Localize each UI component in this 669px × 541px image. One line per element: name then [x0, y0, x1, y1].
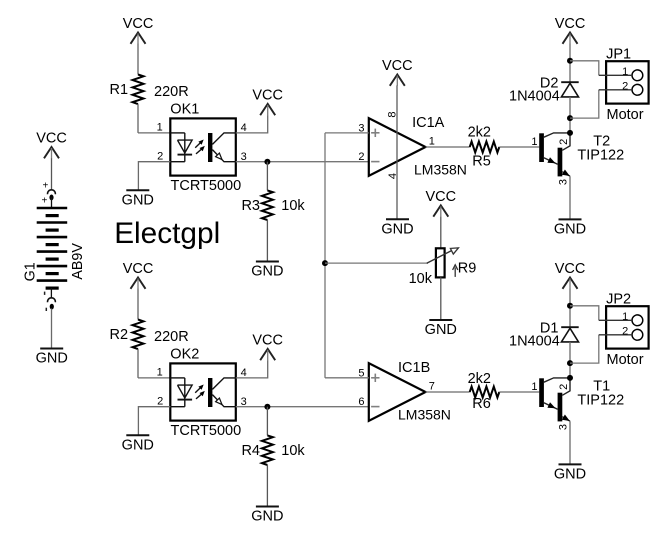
svg-text:8: 8	[386, 112, 398, 118]
svg-text:OK1: OK1	[170, 102, 199, 118]
svg-text:3: 3	[558, 424, 570, 430]
svg-text:JP1: JP1	[606, 46, 631, 62]
svg-text:10k: 10k	[409, 271, 433, 287]
svg-text:VCC: VCC	[123, 261, 154, 277]
svg-text:TCRT5000: TCRT5000	[171, 423, 242, 439]
svg-text:G1: G1	[22, 262, 38, 281]
svg-text:GND: GND	[425, 322, 457, 338]
svg-text:Motor: Motor	[607, 352, 644, 368]
svg-text:220R: 220R	[154, 84, 189, 100]
svg-text:R3: R3	[241, 198, 260, 214]
svg-text:2: 2	[358, 151, 364, 163]
svg-text:IC1A: IC1A	[412, 115, 445, 131]
svg-text:GND: GND	[122, 438, 154, 454]
svg-text:7: 7	[429, 380, 435, 392]
svg-text:AB9V: AB9V	[70, 243, 86, 280]
svg-text:+: +	[42, 196, 48, 207]
svg-text:1: 1	[622, 311, 628, 323]
svg-text:1: 1	[157, 367, 163, 379]
svg-text:R5: R5	[472, 154, 491, 170]
svg-text:3: 3	[558, 179, 570, 185]
svg-text:1: 1	[157, 122, 163, 134]
svg-text:VCC: VCC	[382, 58, 413, 74]
svg-text:Motor: Motor	[607, 107, 644, 123]
svg-text:VCC: VCC	[425, 189, 456, 205]
svg-text:VCC: VCC	[555, 261, 586, 277]
svg-text:6: 6	[358, 396, 364, 408]
svg-text:VCC: VCC	[252, 87, 283, 103]
svg-text:VCC: VCC	[123, 16, 154, 32]
svg-text:OK2: OK2	[170, 347, 199, 363]
svg-text:VCC: VCC	[252, 332, 283, 348]
svg-text:LM358N: LM358N	[398, 406, 451, 422]
svg-text:220R: 220R	[154, 329, 189, 345]
svg-text:3: 3	[241, 396, 247, 408]
svg-text:Electgpl: Electgpl	[114, 217, 220, 250]
svg-text:2k2: 2k2	[468, 371, 491, 387]
svg-text:IC1B: IC1B	[398, 360, 430, 376]
svg-text:VCC: VCC	[555, 16, 586, 32]
svg-text:2: 2	[622, 326, 628, 338]
svg-text:GND: GND	[554, 467, 586, 483]
svg-text:1N4004: 1N4004	[509, 333, 560, 349]
svg-text:VCC: VCC	[36, 130, 67, 146]
svg-text:JP2: JP2	[606, 291, 631, 307]
svg-text:R1: R1	[110, 82, 129, 98]
svg-text:2: 2	[157, 396, 163, 408]
svg-text:GND: GND	[251, 264, 283, 280]
svg-text:TCRT5000: TCRT5000	[171, 178, 242, 194]
svg-text:2: 2	[558, 384, 570, 390]
svg-text:1N4004: 1N4004	[509, 88, 560, 104]
svg-text:1: 1	[531, 381, 537, 393]
svg-text:10k: 10k	[281, 198, 305, 214]
svg-text:4: 4	[241, 367, 247, 379]
svg-text:1: 1	[531, 136, 537, 148]
svg-text:3: 3	[241, 151, 247, 163]
svg-text:TIP122: TIP122	[577, 147, 624, 163]
svg-text:R9: R9	[458, 260, 477, 276]
svg-text:5: 5	[358, 367, 364, 379]
svg-text:GND: GND	[122, 193, 154, 209]
svg-text:TIP122: TIP122	[577, 392, 624, 408]
svg-text:1: 1	[622, 66, 628, 78]
svg-text:2: 2	[157, 151, 163, 163]
svg-text:2: 2	[622, 81, 628, 93]
svg-text:+: +	[42, 181, 48, 192]
svg-text:LM358N: LM358N	[414, 161, 467, 177]
svg-text:2: 2	[558, 139, 570, 145]
svg-text:4: 4	[387, 173, 399, 179]
svg-text:GND: GND	[554, 222, 586, 238]
svg-text:10k: 10k	[281, 443, 305, 459]
svg-text:GND: GND	[251, 509, 283, 525]
svg-text:R6: R6	[472, 396, 491, 412]
svg-text:GND: GND	[36, 351, 68, 367]
svg-text:R2: R2	[110, 327, 129, 343]
svg-text:3: 3	[358, 122, 364, 134]
svg-text:4: 4	[241, 122, 247, 134]
svg-text:R4: R4	[241, 443, 260, 459]
svg-text:1: 1	[429, 135, 435, 147]
svg-text:2k2: 2k2	[468, 124, 491, 140]
svg-text:GND: GND	[381, 222, 413, 238]
